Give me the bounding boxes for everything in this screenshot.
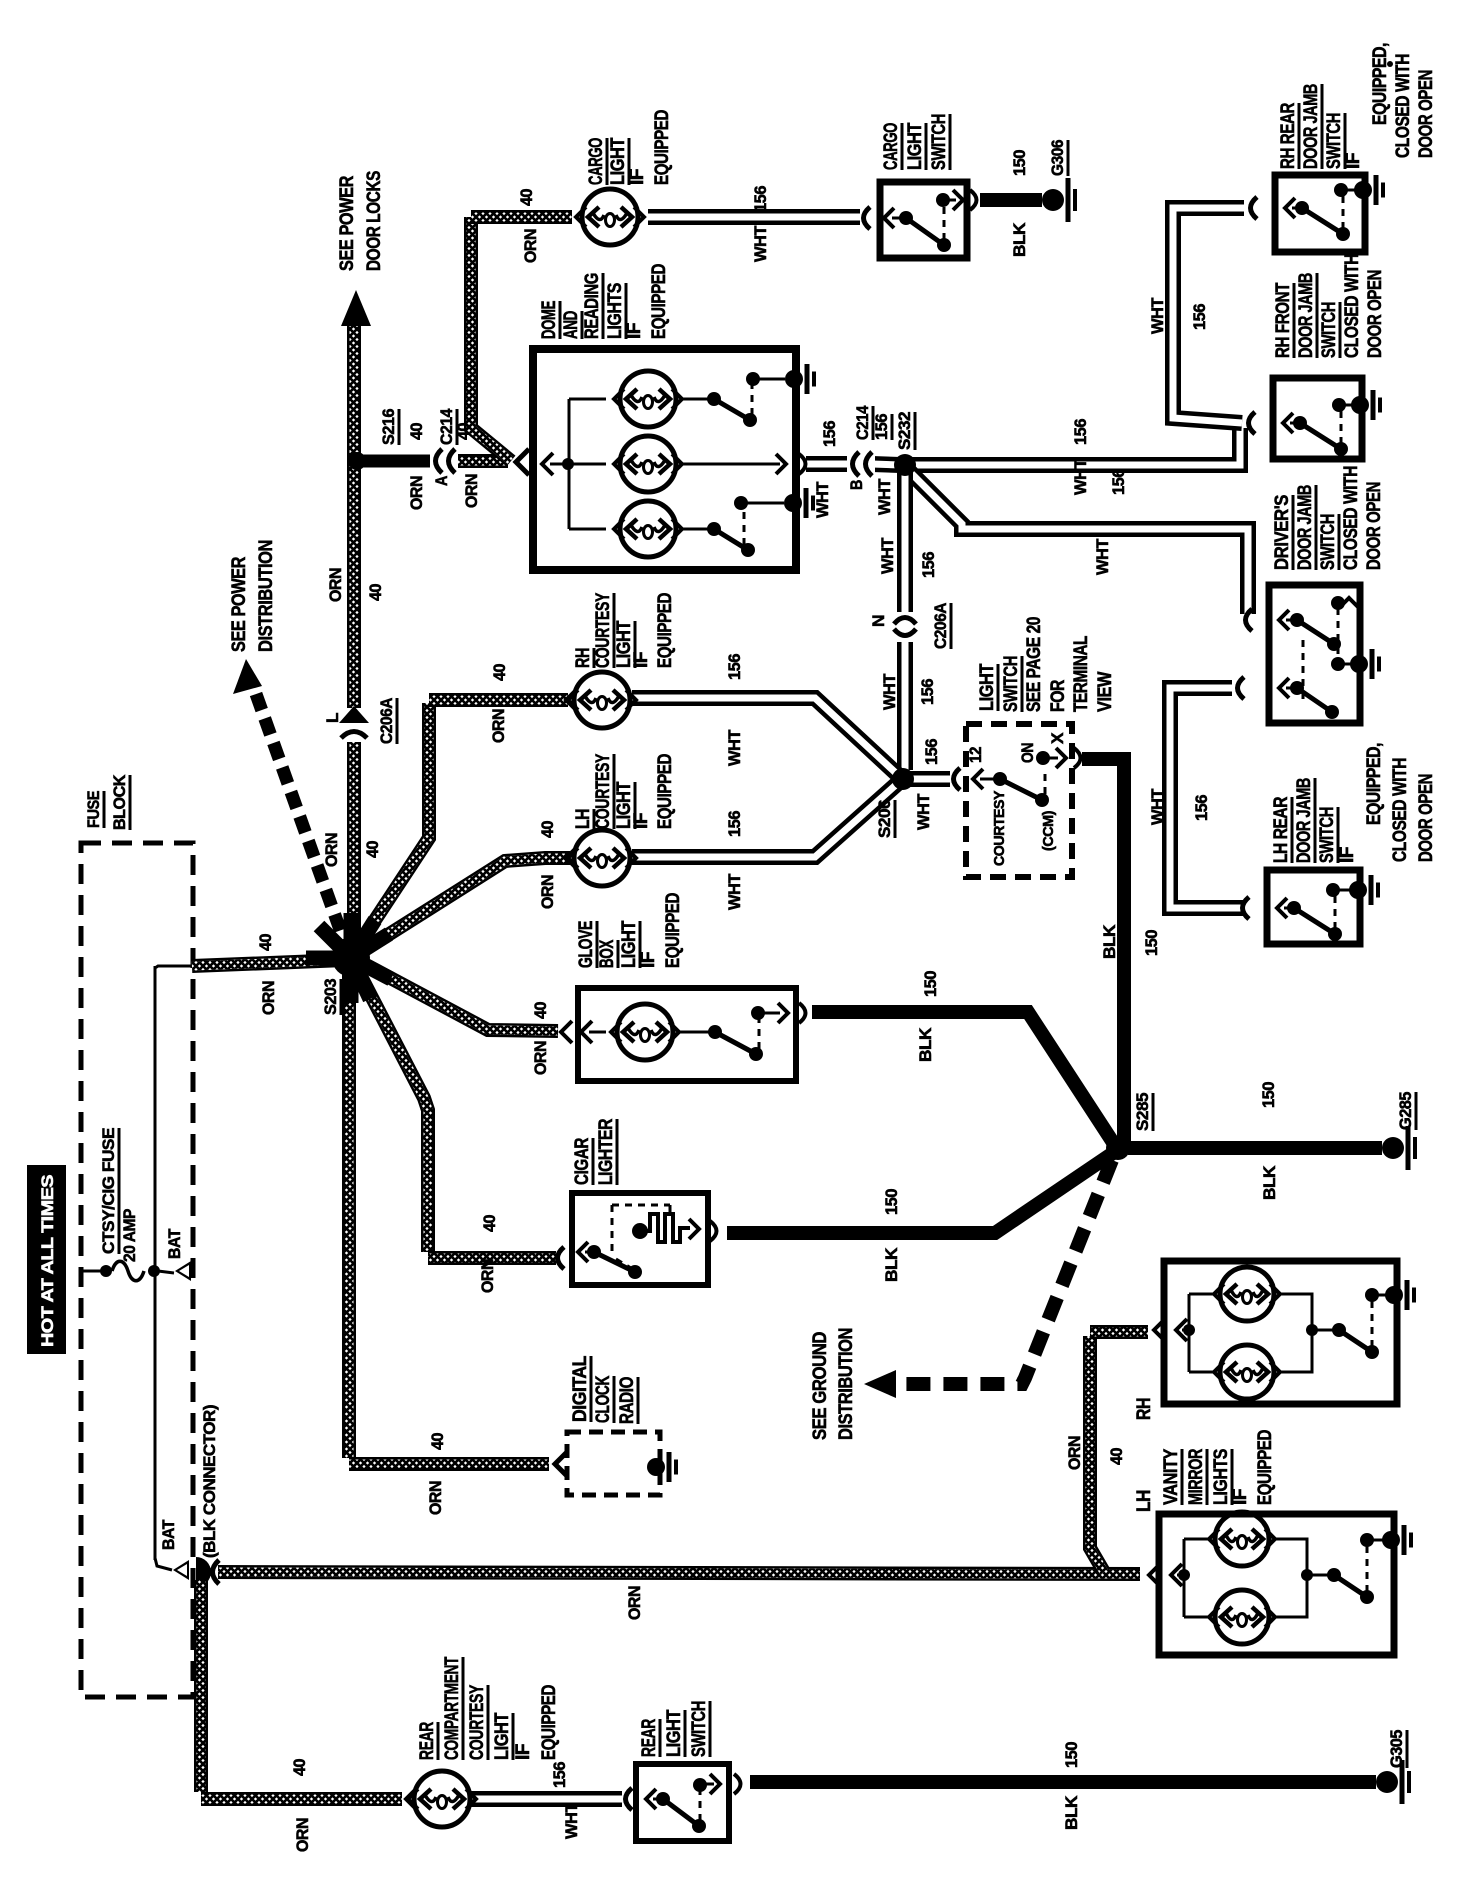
svg-text:156: 156 <box>550 1762 569 1788</box>
connector C214 B <box>847 450 875 478</box>
cargo light bulb <box>582 189 638 245</box>
svg-text:LIGHT: LIGHT <box>977 663 998 711</box>
svg-text:ORN: ORN <box>462 474 481 508</box>
svg-text:G285: G285 <box>1396 1092 1415 1130</box>
svg-text:MIRROR: MIRROR <box>1186 1448 1207 1505</box>
svg-text:40: 40 <box>517 189 536 206</box>
svg-text:SWITCH: SWITCH <box>1319 302 1340 358</box>
svg-text:WHT: WHT <box>725 729 744 766</box>
svg-text:156: 156 <box>872 414 891 440</box>
wire WHT S206 to light switch <box>908 771 950 787</box>
svg-text:ORN: ORN <box>326 568 345 602</box>
svg-text:LIGHT: LIGHT <box>619 920 640 968</box>
svg-text:DOME: DOME <box>539 301 560 339</box>
svg-text:156: 156 <box>751 186 770 212</box>
arrow to SEE POWER DOOR LOCKS <box>341 290 371 326</box>
svg-text:WHT: WHT <box>751 225 770 262</box>
svg-text:CLOSED WITH: CLOSED WITH <box>1393 54 1414 158</box>
svg-text:A: A <box>432 476 451 486</box>
dome bus <box>568 399 571 529</box>
splice S285 <box>1106 1136 1130 1160</box>
fuse CTSY/CIG 20A element <box>112 1261 144 1281</box>
svg-text:B: B <box>847 480 866 490</box>
svg-text:WHT: WHT <box>880 673 899 710</box>
svg-text:COMPARTMENT: COMPARTMENT <box>442 1656 463 1760</box>
LH courtesy light bulb <box>566 847 577 869</box>
wire BLK rear light switch to G305 <box>750 1775 1376 1789</box>
banner HOT AT ALL TIMES <box>27 1165 66 1354</box>
svg-text:ON: ON <box>1018 743 1037 763</box>
svg-text:COURTESY: COURTESY <box>467 1684 488 1760</box>
svg-text:C206A: C206A <box>931 603 950 649</box>
svg-text:HOT AT ALL TIMES: HOT AT ALL TIMES <box>38 1175 57 1347</box>
dome bulb 3 switch <box>680 528 710 531</box>
svg-text:156: 156 <box>1071 419 1090 445</box>
drivers switch lower blade <box>1297 688 1332 712</box>
svg-text:156: 156 <box>1190 304 1209 330</box>
svg-text:DIGITAL: DIGITAL <box>570 1355 591 1422</box>
svg-text:DOOR JAMB: DOOR JAMB <box>1301 84 1322 169</box>
svg-text:SEE GROUND: SEE GROUND <box>810 1332 831 1440</box>
svg-text:LIGHT: LIGHT <box>608 137 629 185</box>
svg-text:ORN: ORN <box>625 1586 644 1620</box>
svg-text:150: 150 <box>1062 1742 1081 1768</box>
svg-text:C214: C214 <box>853 405 872 440</box>
drivers door jamb switch box <box>1269 585 1360 723</box>
wire ORN cargo light feed riser <box>471 217 511 461</box>
svg-text:S232: S232 <box>895 412 914 450</box>
glove box bulb <box>589 1031 606 1034</box>
svg-text:ORN: ORN <box>1065 1436 1084 1470</box>
dome bulb 2 <box>569 463 606 466</box>
svg-text:40: 40 <box>407 423 426 440</box>
splice S206 <box>892 768 914 790</box>
svg-text:SWITCH: SWITCH <box>1324 113 1345 169</box>
wire WHT S232 to RH front door jamb switch <box>910 428 1240 465</box>
svg-text:RH: RH <box>1134 1398 1155 1420</box>
RH courtesy light bulb <box>566 689 577 711</box>
svg-text:CLOSED WITH: CLOSED WITH <box>1342 254 1363 358</box>
LH rear door jamb switch blade <box>1284 907 1291 910</box>
cigar lighter terminal <box>558 1247 565 1269</box>
svg-text:IF: IF <box>638 952 659 968</box>
glove box light box <box>578 988 796 1081</box>
svg-text:RH: RH <box>573 648 594 668</box>
svg-text:LIGHT: LIGHT <box>664 1709 685 1757</box>
RH vanity mirror lights bulb 2 <box>1189 1371 1216 1374</box>
wire ORN S203 to LH courtesy light <box>353 858 570 957</box>
svg-text:S203: S203 <box>321 979 340 1015</box>
RH vanity mirror lights switch <box>1312 1329 1334 1332</box>
wire ORN S203 to glove box light <box>353 958 558 1031</box>
svg-text:BLK: BLK <box>1062 1795 1081 1830</box>
wire WHT C206A N to splice S206 <box>897 642 913 770</box>
svg-text:VIEW: VIEW <box>1095 672 1116 712</box>
dome bulb 1 switch <box>680 398 710 401</box>
svg-text:SEE POWER: SEE POWER <box>229 556 250 652</box>
svg-text:WHT: WHT <box>1093 538 1112 575</box>
svg-text:LIGHT: LIGHT <box>905 122 926 170</box>
RH rear door jamb switch blade <box>1292 207 1299 210</box>
svg-text:CARGO: CARGO <box>881 123 902 170</box>
arrow to SEE POWER DISTRIBUTION <box>233 659 262 694</box>
svg-text:DISTRIBUTION: DISTRIBUTION <box>256 540 277 652</box>
wire WHT S232 to drivers door jamb switch <box>908 470 1248 614</box>
wire WHT S232 down to connector C206A N <box>897 470 913 612</box>
svg-text:CLOSED WITH: CLOSED WITH <box>1341 466 1362 570</box>
wire WHT RH rear jamb to RH front jamb link <box>1173 208 1244 423</box>
svg-text:S216: S216 <box>379 409 398 445</box>
wire ORN S203 to cigar lighter <box>352 959 428 1252</box>
dome bulb 1 <box>569 398 606 401</box>
svg-text:S285: S285 <box>1133 1093 1152 1131</box>
arrow to SEE GROUND DISTRIBUTION <box>864 1370 896 1398</box>
drivers switch lower terminal <box>1238 677 1245 699</box>
svg-text:ORN: ORN <box>259 981 278 1015</box>
svg-text:BLK: BLK <box>882 1247 901 1282</box>
rear light switch output <box>704 1783 714 1786</box>
terminal dome feed arrows <box>516 449 529 475</box>
svg-text:LIGHTER: LIGHTER <box>596 1118 617 1185</box>
svg-text:ORN: ORN <box>478 1259 497 1293</box>
svg-text:G305: G305 <box>1387 1730 1406 1768</box>
svg-text:EQUIPPED: EQUIPPED <box>655 593 676 668</box>
wire WHT rear compartment light to rear light switch <box>470 1791 622 1807</box>
LH vanity mirror lights switch <box>1307 1574 1329 1577</box>
svg-text:COURTESY: COURTESY <box>593 753 614 829</box>
rear light switch box <box>636 1764 729 1841</box>
LH vanity mirror lights bulb 1 <box>1184 1538 1211 1541</box>
svg-text:40: 40 <box>490 664 509 681</box>
RH vanity mirror lights bulb 1 <box>1189 1293 1216 1296</box>
wire ORN from BLK connector to vanity lights <box>218 1572 1140 1574</box>
svg-text:SWITCH: SWITCH <box>1318 514 1339 570</box>
svg-text:20 AMP: 20 AMP <box>120 1209 139 1262</box>
RH front door jamb switch ground <box>1343 404 1354 407</box>
RH vanity mirror lights right bus <box>1279 1294 1312 1372</box>
drivers switch link dashed <box>1302 640 1305 700</box>
svg-text:IF: IF <box>627 169 648 185</box>
svg-text:SEE POWER: SEE POWER <box>337 175 358 271</box>
connector BLK CONNECTOR half-moons <box>196 1557 211 1587</box>
dome bulb 2 output <box>680 463 780 466</box>
LH vanity mirror lights box <box>1159 1514 1394 1655</box>
cigar lighter blade <box>585 1251 590 1254</box>
svg-text:S206: S206 <box>875 800 894 838</box>
RH vanity mirror lights ground <box>1385 1286 1403 1304</box>
wire ORN drop to rear compartment light <box>194 1580 208 1792</box>
wire WHT LH courtesy light to S206 <box>632 783 898 857</box>
wire BLK dashed S285 to ground distribution <box>898 1160 1112 1384</box>
svg-text:CIGAR: CIGAR <box>572 1137 593 1185</box>
svg-text:WHT: WHT <box>875 478 894 515</box>
RH rear door jamb switch ground <box>1345 189 1357 192</box>
svg-text:156: 156 <box>725 811 744 837</box>
svg-text:COURTESY: COURTESY <box>991 791 1008 866</box>
RH rear door jamb switch box <box>1275 175 1365 252</box>
wire WHT cargo light to cargo light switch <box>648 209 860 225</box>
glove box switch <box>677 1031 710 1034</box>
svg-text:EQUIPPED,: EQUIPPED, <box>1364 743 1385 825</box>
svg-text:40: 40 <box>428 1433 447 1450</box>
drivers switch upper blade <box>1297 620 1334 644</box>
splice S203 <box>306 951 351 966</box>
svg-text:L: L <box>323 713 342 723</box>
svg-text:VANITY: VANITY <box>1161 1448 1182 1505</box>
svg-text:FUSE: FUSE <box>84 791 103 828</box>
svg-text:COURTESY: COURTESY <box>593 592 614 668</box>
svg-text:40: 40 <box>538 821 557 838</box>
ground G285 <box>1382 1137 1404 1159</box>
ground G306 <box>1042 189 1064 211</box>
connector C214 A <box>430 447 458 475</box>
rear light switch dashed link <box>699 1790 702 1821</box>
light switch dashed box <box>966 724 1072 877</box>
RH vanity mirror lights left bus <box>1188 1294 1191 1372</box>
cigar lighter element <box>632 1223 648 1239</box>
svg-text:IF: IF <box>1230 1489 1251 1505</box>
svg-text:CLOCK: CLOCK <box>593 1375 614 1423</box>
svg-text:EQUIPPED: EQUIPPED <box>649 264 670 339</box>
LH vanity mirror lights bulb 2 <box>1184 1616 1211 1619</box>
wire BAT thin vertical inside fuse block <box>154 966 157 1560</box>
svg-text:ORN: ORN <box>531 1041 550 1075</box>
cargo light switch blade <box>892 217 903 220</box>
svg-text:ORN: ORN <box>538 875 557 909</box>
svg-text:ORN: ORN <box>407 476 426 510</box>
svg-text:REAR: REAR <box>639 1718 660 1757</box>
svg-text:40: 40 <box>366 584 385 601</box>
svg-text:IF: IF <box>513 1744 534 1760</box>
clock radio feed terminal <box>555 1452 567 1476</box>
drivers switch upper right contact <box>1331 596 1345 610</box>
svg-text:EQUIPPED: EQUIPPED <box>663 893 684 968</box>
svg-text:BLK: BLK <box>1010 222 1029 257</box>
svg-text:156: 156 <box>1192 795 1211 821</box>
wire ORN trunk S203 up to door-locks arrow <box>347 322 361 962</box>
scan speck top right <box>1387 61 1393 67</box>
cigar lighter dashed element box <box>611 1205 614 1256</box>
svg-text:40: 40 <box>454 423 473 440</box>
svg-text:FOR: FOR <box>1048 679 1069 712</box>
svg-text:156: 156 <box>918 679 937 705</box>
LH vanity mirror lights ground <box>1382 1531 1400 1549</box>
ground dome bottom <box>784 494 802 512</box>
LH vanity mirror lights right bus <box>1274 1539 1307 1617</box>
svg-text:READING: READING <box>582 273 603 339</box>
wire ORN fuse output to splice S203 <box>192 960 345 966</box>
svg-text:156: 156 <box>1109 469 1128 495</box>
svg-text:EQUIPPED,: EQUIPPED, <box>1370 43 1391 125</box>
svg-text:150: 150 <box>1142 930 1161 956</box>
dome feed terminal <box>542 453 553 475</box>
svg-text:RH FRONT: RH FRONT <box>1273 282 1294 358</box>
svg-text:IF: IF <box>1337 847 1358 863</box>
ground dome top <box>785 370 803 388</box>
svg-text:DOOR OPEN: DOOR OPEN <box>1365 270 1386 358</box>
wire BLK cargo light switch to G306 <box>980 193 1042 207</box>
svg-text:40: 40 <box>531 1002 550 1019</box>
LH vanity mirror lights left bus <box>1183 1539 1186 1617</box>
wire ORN S216 branch to connector C214 <box>357 455 432 468</box>
svg-text:40: 40 <box>256 934 275 951</box>
svg-text:REAR: REAR <box>417 1721 438 1760</box>
node fuse right terminal <box>148 1265 160 1277</box>
drivers switch right dashed to ground <box>1337 608 1340 658</box>
glove box feed terminal <box>561 1021 572 1043</box>
RH front door jamb switch feed terminal <box>1249 412 1256 434</box>
svg-text:40: 40 <box>480 1215 499 1232</box>
svg-text:WHT: WHT <box>725 873 744 910</box>
svg-text:WHT: WHT <box>562 1802 581 1839</box>
svg-text:SWITCH: SWITCH <box>929 114 950 170</box>
svg-text:IF: IF <box>1343 153 1364 169</box>
svg-text:DOOR JAMB: DOOR JAMB <box>1294 778 1315 863</box>
svg-text:SEE PAGE 20: SEE PAGE 20 <box>1024 617 1045 712</box>
svg-text:TERMINAL: TERMINAL <box>1071 635 1092 712</box>
wire BLK glove box light to S285 <box>812 1012 1114 1144</box>
splice S216 <box>348 452 366 470</box>
svg-text:150: 150 <box>921 971 940 997</box>
svg-text:BOX: BOX <box>597 939 618 968</box>
drivers switch upper terminal <box>1246 609 1253 631</box>
svg-text:DRIVER'S: DRIVER'S <box>1272 495 1293 570</box>
svg-text:ORN: ORN <box>489 709 508 743</box>
dome feed to bus <box>550 463 569 466</box>
svg-text:WHT: WHT <box>1148 297 1167 334</box>
cargo light switch box <box>880 182 967 258</box>
node fuse left terminal <box>100 1265 112 1277</box>
svg-text:WHT: WHT <box>878 537 897 574</box>
cargo light switch output <box>948 199 956 202</box>
rear compartment courtesy light bulb <box>406 1788 417 1810</box>
wire ORN cargo light feed <box>471 210 572 224</box>
RH front door jamb switch dashed link <box>1340 410 1343 444</box>
wire ORN dashed to SEE POWER DISTRIBUTION <box>256 694 348 952</box>
ground drivers switch <box>1350 655 1368 673</box>
wire BLK light switch to S285 <box>1082 759 1124 1142</box>
connector C206A N <box>891 614 919 640</box>
svg-text:ORN: ORN <box>426 1481 445 1515</box>
terminal BAT upper (triangle) <box>175 1261 191 1281</box>
svg-text:EQUIPPED: EQUIPPED <box>655 754 676 829</box>
svg-text:156: 156 <box>919 552 938 578</box>
svg-text:BLK: BLK <box>1260 1165 1279 1200</box>
svg-text:IF: IF <box>631 813 652 829</box>
svg-text:150: 150 <box>882 1189 901 1215</box>
RH vanity mirror lights feed terminal <box>1154 1319 1165 1341</box>
svg-text:EQUIPPED: EQUIPPED <box>539 1685 560 1760</box>
wire ORN S203 down to digital clock radio <box>342 962 356 1458</box>
svg-text:CTSY/CIG FUSE: CTSY/CIG FUSE <box>99 1128 118 1254</box>
wire BLK S285 to G285 <box>1128 1141 1382 1155</box>
light switch dashed link <box>1044 770 1047 794</box>
dome and reading lights box <box>533 349 796 570</box>
terminal BAT lower (triangle) <box>173 1560 189 1580</box>
svg-text:LH: LH <box>573 809 594 829</box>
RH rear door jamb switch feed terminal <box>1251 197 1258 219</box>
svg-text:AND: AND <box>561 311 582 339</box>
svg-text:DOOR JAMB: DOOR JAMB <box>1296 273 1317 358</box>
svg-text:X: X <box>1048 732 1067 744</box>
fuse block dashed box <box>81 843 193 1697</box>
svg-text:DOOR LOCKS: DOOR LOCKS <box>364 171 385 271</box>
svg-text:DOOR JAMB: DOOR JAMB <box>1295 485 1316 570</box>
svg-text:EQUIPPED: EQUIPPED <box>1255 1430 1276 1505</box>
svg-text:(CCM): (CCM) <box>1040 811 1057 851</box>
svg-text:ORN: ORN <box>521 229 540 263</box>
svg-text:BLK: BLK <box>1100 924 1119 959</box>
wire WHT dome lights to C214 B <box>806 456 847 472</box>
splice S232 <box>894 454 916 476</box>
rear light switch terminal <box>626 1788 633 1810</box>
svg-text:IF: IF <box>624 323 645 339</box>
LH rear door jamb switch feed terminal <box>1243 897 1250 919</box>
svg-text:GLOVE: GLOVE <box>576 921 597 968</box>
wire fuse row left segment <box>82 1270 102 1273</box>
light switch terminal 12 <box>954 768 961 790</box>
svg-text:LH: LH <box>1134 1490 1155 1512</box>
svg-text:150: 150 <box>1259 1082 1278 1108</box>
svg-text:LIGHTS: LIGHTS <box>605 283 626 339</box>
svg-text:G306: G306 <box>1048 140 1067 176</box>
cargo light switch terminal crescent <box>864 207 871 229</box>
wire fuse to BAT terminal <box>158 1271 174 1273</box>
wire BAT lower corner <box>155 1558 172 1570</box>
svg-text:DOOR OPEN: DOOR OPEN <box>1416 70 1437 158</box>
ground clock radio <box>647 1458 665 1476</box>
svg-text:12: 12 <box>966 747 985 763</box>
svg-text:ORN: ORN <box>322 833 341 867</box>
RH front door jamb switch blade <box>1290 422 1297 425</box>
svg-text:C206A: C206A <box>377 698 396 744</box>
LH rear door jamb switch ground <box>1337 889 1352 892</box>
RH rear door jamb switch dashed link <box>1342 195 1345 229</box>
svg-text:LIGHTS: LIGHTS <box>1211 1449 1232 1505</box>
digital clock radio dashed box <box>567 1432 660 1495</box>
wire WHT drivers lower to LH rear jamb link <box>1170 688 1244 908</box>
RH vanity mirror lights box <box>1164 1261 1397 1404</box>
RH front door jamb switch box <box>1273 378 1362 459</box>
wire BLK cigar lighter to S285 <box>727 1153 1113 1233</box>
svg-text:40: 40 <box>290 1759 309 1776</box>
rear light switch blade <box>653 1798 660 1801</box>
wire WHT RH courtesy light to S206 <box>632 698 898 775</box>
svg-text:WHT: WHT <box>1148 788 1167 825</box>
svg-text:LH REAR: LH REAR <box>1271 796 1292 863</box>
svg-text:BAT: BAT <box>165 1228 184 1259</box>
svg-text:40: 40 <box>1107 1448 1126 1465</box>
svg-text:DOOR OPEN: DOOR OPEN <box>1416 774 1437 862</box>
svg-text:BLOCK: BLOCK <box>110 774 129 830</box>
wire ORN S203 to RH courtesy light <box>352 703 429 955</box>
svg-text:EQUIPPED: EQUIPPED <box>652 110 673 185</box>
svg-text:LIGHT: LIGHT <box>492 1712 513 1760</box>
svg-text:ORN: ORN <box>293 1818 312 1852</box>
LH rear door jamb switch box <box>1267 870 1360 944</box>
wire ORN riser to RH vanity lights <box>1090 1336 1104 1572</box>
svg-text:N: N <box>869 615 888 627</box>
svg-text:BAT: BAT <box>159 1519 178 1550</box>
connector C206A L on trunk <box>340 708 368 742</box>
svg-text:RADIO: RADIO <box>617 1377 638 1424</box>
LH vanity mirror lights feed terminal <box>1149 1564 1160 1586</box>
cargo light switch dashed link <box>943 205 946 240</box>
svg-text:SWITCH: SWITCH <box>689 1701 710 1757</box>
svg-text:WHT: WHT <box>813 481 832 518</box>
svg-text:RH REAR: RH REAR <box>1278 102 1299 169</box>
ground G305 <box>1376 1771 1398 1793</box>
